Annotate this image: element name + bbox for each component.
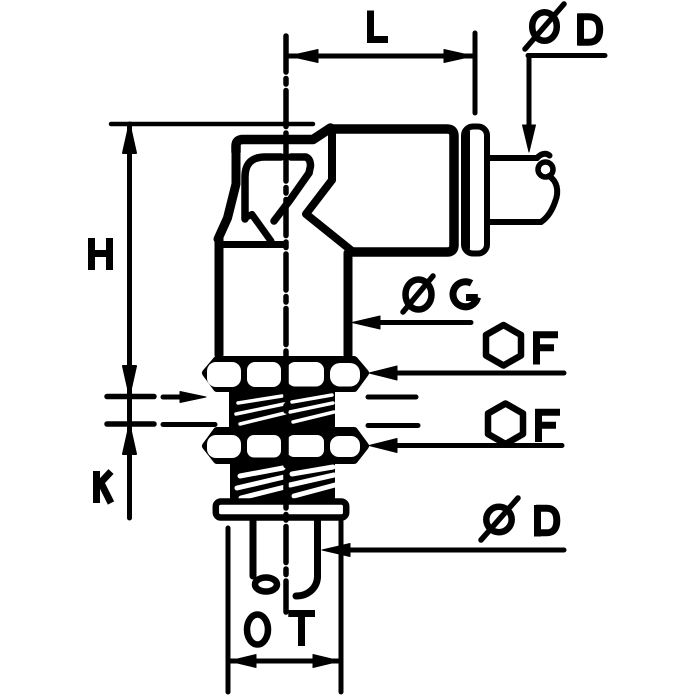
arrow leader F1: [369, 366, 397, 380]
wire corner block right edge: [328, 130, 336, 180]
wire leader G: [368, 320, 471, 325]
hex nut 2: [206, 431, 365, 460]
arrow H bottom: [123, 366, 136, 395]
wire facet junction: [245, 215, 271, 242]
wire vertical branch left edge: [215, 238, 224, 355]
label K: [97, 471, 112, 503]
wire elbow left edge tapered: [218, 150, 236, 239]
dimension T line: [228, 659, 341, 664]
arrow leader D top: [523, 125, 536, 152]
washer: [216, 502, 346, 518]
wire vertical branch right edge: [344, 253, 353, 355]
dimension K line: [127, 425, 132, 518]
wire leader F2: [385, 443, 562, 448]
wire T extension left: [226, 528, 231, 692]
collar release ring: [464, 127, 487, 254]
wire leader F1: [385, 371, 564, 376]
thread section 1: [229, 388, 335, 429]
label diameter G: [403, 276, 478, 312]
arrow panel upper: [180, 392, 206, 403]
wire panel dash upper left: [163, 395, 196, 400]
label H: [91, 238, 110, 270]
wire panel dash lower left: [163, 422, 215, 427]
wire T extension right: [339, 521, 344, 692]
dimension H line: [127, 124, 132, 396]
arrow T left: [229, 655, 256, 668]
fitting body: elbow outer outline: [218, 128, 454, 355]
wire panel dash upper right: [368, 395, 416, 400]
arrow leader G: [352, 316, 380, 329]
wire branch top edge and right cap: [331, 129, 455, 252]
label diameter D top: [525, 4, 600, 49]
wire corner notch diagonals: [306, 180, 352, 251]
wire elbow top edge with corner: [236, 128, 331, 152]
arrow L left: [289, 50, 318, 63]
label L: [367, 11, 388, 44]
wire between ticks: [127, 396, 132, 424]
node centerline vertical axis: [283, 36, 289, 612]
wire shoulder line: [220, 241, 283, 248]
stem tube bottom: [253, 521, 318, 596]
wire leader D bottom: [338, 548, 564, 553]
wire chamfer inner diagonal: [274, 173, 309, 221]
wire H extension line top: [111, 122, 313, 127]
wire inner corner line: [245, 157, 281, 219]
arrow K up: [123, 425, 136, 454]
hex icon F1: [486, 325, 558, 366]
label diameter D bottom: [481, 498, 557, 540]
arrow leader F2: [369, 439, 397, 453]
tube inserted right: [489, 154, 557, 222]
arrow H top: [123, 124, 136, 153]
thread section 2: [230, 461, 335, 503]
wire inner corner line right part with bend: [291, 157, 311, 173]
tick panel upper: [107, 394, 154, 400]
arrow L right: [444, 50, 473, 63]
arrow T right: [313, 655, 340, 668]
tick panel lower: [107, 421, 154, 427]
hex nut 1: [206, 360, 365, 388]
hex icon F2: [488, 404, 560, 445]
wire leader D top: [528, 56, 605, 136]
arrow leader D bottom: [322, 544, 350, 557]
dimension L line: [288, 54, 474, 59]
label OT: [247, 614, 315, 647]
wire L extension right: [473, 33, 478, 113]
wire panel dash lower right: [368, 423, 418, 428]
